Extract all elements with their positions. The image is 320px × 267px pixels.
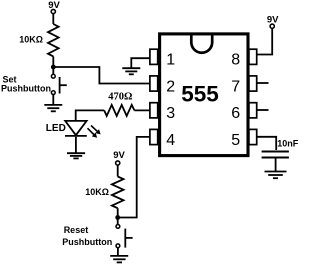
node 9V right supply terminal [267, 14, 279, 28]
wire R2 to junction [117, 208, 119, 217]
svg-text:7: 7 [231, 78, 240, 95]
IC notch (pin 1 indicator) [191, 36, 212, 53]
svg-text:10nF: 10nF [277, 139, 299, 149]
wire pin 5 to C1 [256, 137, 276, 150]
pin box 3 [150, 103, 158, 118]
svg-text:Pushbutton: Pushbutton [1, 84, 51, 94]
wire R1 to junction [52, 56, 54, 67]
LED D1 [65, 121, 101, 138]
wire 9V terminal to R2 [117, 165, 119, 176]
ground (C1) [265, 172, 287, 179]
label Set Pushbutton [1, 75, 51, 94]
pin box 2 [150, 76, 158, 91]
wire 9V terminal to R1 [52, 14, 54, 24]
wire junction to SW1 top contact [52, 67, 54, 74]
wire SW1 to ground [52, 95, 54, 105]
resistor R1 10K pull-up (vertical zigzag) [48, 24, 59, 56]
wire junction to SW2 top contact [117, 218, 119, 225]
svg-text:8: 8 [231, 52, 240, 69]
svg-text:3: 3 [166, 105, 175, 122]
wire pin 7 stub [256, 82, 269, 84]
wire pin 6 stub [256, 109, 269, 111]
svg-text:Pushbutton: Pushbutton [62, 237, 112, 247]
svg-text:4: 4 [166, 132, 175, 149]
wire pin 1 to ground [131, 58, 150, 68]
wire LED cathode to ground [75, 137, 77, 153]
wire junction to pin 2 (trigger) [53, 67, 150, 84]
ground (below SW1) [44, 105, 62, 111]
svg-text:470Ω: 470Ω [108, 92, 132, 103]
pin box 7 [249, 76, 257, 91]
wire pin 8 to 9V [256, 28, 272, 54]
pushbutton SW1 (Set) [51, 74, 66, 94]
pin box 5 [249, 129, 257, 144]
junction node R1 / SW1 / pin2 [51, 65, 56, 70]
wire pin 4 to reset junction [118, 137, 151, 218]
node 9V bottom supply terminal [113, 150, 125, 165]
svg-text:5: 5 [231, 132, 240, 149]
ground (below SW2) [110, 256, 128, 263]
svg-text:9V: 9V [113, 150, 125, 161]
pin box 8 [249, 49, 257, 64]
junction node R2 / SW2 / pin4 [115, 215, 120, 220]
svg-text:6: 6 [231, 105, 240, 122]
node 9V top-left supply terminal [48, 0, 60, 14]
svg-text:10KΩ: 10KΩ [19, 35, 43, 45]
resistor R2 10K pull-up (vertical zigzag) [112, 177, 124, 209]
svg-text:555: 555 [181, 81, 219, 106]
ground (pin 1) [122, 68, 140, 74]
svg-text:Reset: Reset [64, 225, 89, 235]
op-amp U1 555 timer IC body [160, 34, 248, 156]
wire C1 to ground [275, 159, 277, 172]
resistor R3 470 ohm (horizontal zigzag) [104, 105, 134, 116]
pin box 6 [249, 103, 257, 118]
ground (LED) [67, 153, 85, 158]
wire pin 3 to R3 [134, 109, 150, 111]
svg-text:10KΩ: 10KΩ [85, 187, 109, 197]
pin box 4 [150, 129, 158, 144]
label Reset Pushbutton [62, 225, 112, 247]
capacitor C1 [262, 152, 289, 158]
pushbutton SW2 (Reset) [116, 225, 133, 248]
svg-text:LED: LED [46, 123, 66, 134]
wire R3 to LED anode [76, 110, 105, 121]
wire SW2 to ground [117, 248, 119, 256]
svg-text:1: 1 [166, 52, 175, 69]
svg-text:2: 2 [166, 78, 175, 95]
pin box 1 [150, 49, 158, 64]
